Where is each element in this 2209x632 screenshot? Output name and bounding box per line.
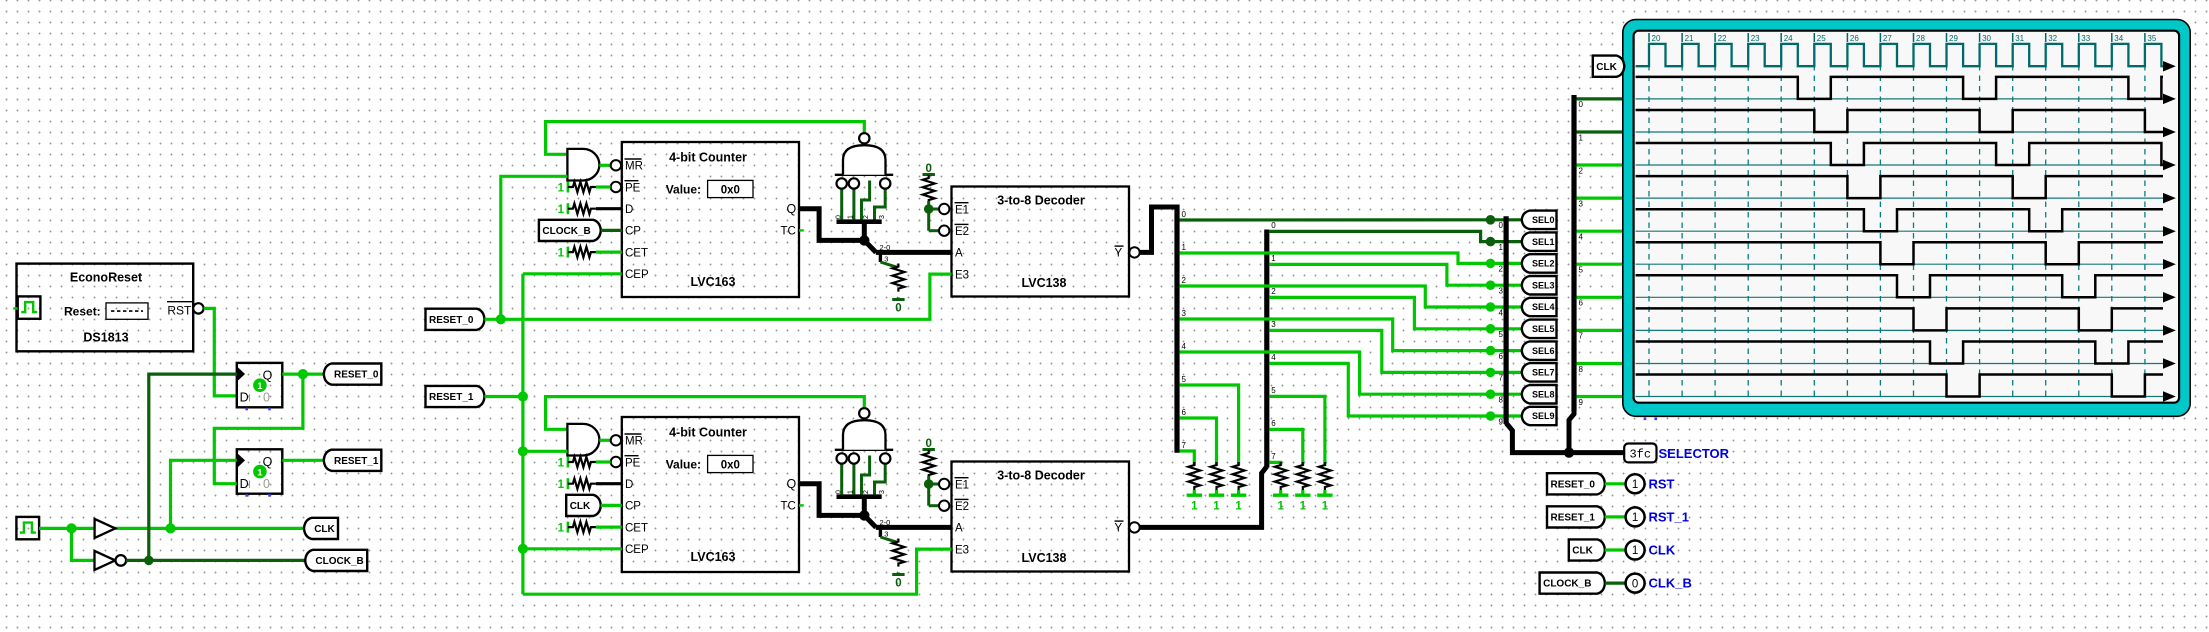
svg-text:RESET_0: RESET_0: [429, 315, 474, 326]
svg-text:RESET_1: RESET_1: [1551, 513, 1596, 524]
svg-text:1: 1: [1632, 479, 1638, 491]
svg-text:CET: CET: [625, 247, 648, 259]
svg-text:3: 3: [879, 490, 886, 494]
svg-text:4: 4: [1499, 308, 1504, 317]
svg-text:SELECTOR: SELECTOR: [1659, 446, 1730, 461]
wire splitter bit1 to NANDB input bubble: [852, 464, 855, 495]
splitter SB2 bits 2-0 / 3: [864, 515, 876, 527]
svg-text:CLOCK_B: CLOCK_B: [315, 556, 363, 567]
svg-text:6: 6: [1182, 408, 1187, 417]
svg-text:I: I: [248, 393, 251, 405]
wire FF2 Q output to tunnel RESET_1: [282, 459, 324, 462]
scope vertical grid dashed lines: [1648, 44, 1650, 401]
wire NANDA feedback to ANDA gate input: [546, 122, 865, 155]
svg-text:RST: RST: [1649, 476, 1675, 491]
svg-text:3-to-8 Decoder: 3-to-8 Decoder: [997, 469, 1085, 483]
svg-text:CP: CP: [625, 226, 641, 238]
scope tick marks and numbers 20-35: [1648, 33, 1650, 42]
inverted output pin RST of U1: [193, 303, 203, 313]
svg-text:RESET_0: RESET_0: [334, 370, 379, 381]
4-bit counter U4 LVC163: [622, 417, 799, 572]
AND gate GB: [567, 424, 599, 456]
svg-text:RESET_0: RESET_0: [1551, 479, 1596, 490]
svg-text:E3: E3: [955, 269, 969, 281]
wire RESET_0 to probe: [1605, 482, 1626, 485]
wire to E2 bubble: [929, 504, 939, 507]
svg-text:22: 22: [1718, 34, 1727, 43]
wire CLOCK_B to probe: [1605, 581, 1626, 584]
wire D1.7 to pull-up resistor: [1180, 451, 1195, 466]
tunnel CLOCK_B to output probe CLK_B: [1540, 573, 1605, 594]
tunnel RESET_1 (left): [324, 450, 382, 471]
svg-text:1: 1: [1277, 501, 1284, 513]
junction on FF1 Q node: [298, 369, 308, 379]
svg-text:1: 1: [1213, 501, 1220, 513]
svg-text:34: 34: [2114, 34, 2123, 43]
splitter SB1 bus to 4 bits: [862, 496, 867, 515]
svg-text:SEL4: SEL4: [1532, 302, 1555, 312]
pull-up resistor on D pin (value 1): [567, 203, 570, 214]
scope row 6 arrow: [2164, 293, 2175, 302]
svg-text:0: 0: [1499, 221, 1504, 230]
svg-text:30: 30: [1982, 34, 1991, 43]
svg-text:Value:: Value:: [666, 457, 701, 471]
svg-text:Q: Q: [787, 477, 797, 491]
svg-text:SEL6: SEL6: [1532, 346, 1555, 356]
svg-text:4: 4: [1579, 233, 1584, 242]
svg-text:9: 9: [1499, 417, 1504, 426]
svg-text:CLOCK_B: CLOCK_B: [542, 226, 590, 237]
svg-text:0x0: 0x0: [721, 460, 740, 472]
wire D2.5 to pull-up resistor: [1269, 396, 1325, 465]
svg-text:E3: E3: [955, 544, 969, 556]
output probe RST (value 1): [1626, 474, 1645, 493]
tunnel CLK to CP pin: [566, 495, 601, 516]
svg-text:9: 9: [1579, 398, 1584, 407]
svg-text:A: A: [955, 523, 963, 535]
svg-text:7: 7: [1499, 374, 1504, 383]
svg-text:E2: E2: [955, 226, 969, 238]
splitter SA2 bits 2-0 / 3: [864, 240, 876, 252]
scope row 8 arrow: [2164, 359, 2175, 368]
svg-text:CLK: CLK: [1572, 546, 1593, 557]
wire RST to D input of flip-flop FF1: [204, 308, 237, 396]
svg-text:5: 5: [1271, 386, 1276, 395]
pull-up resistor on CET pin (value 1): [567, 522, 570, 533]
svg-text:5: 5: [1499, 330, 1504, 339]
svg-text:PE: PE: [625, 182, 641, 194]
svg-text:Y: Y: [1115, 523, 1123, 535]
junction RESET_1 to CEP-B: [518, 544, 528, 554]
wire D1.6 to pull-up resistor: [1180, 418, 1217, 466]
svg-text:RESET_1: RESET_1: [429, 392, 474, 403]
wire D2.3 to SEL7 node: [1269, 330, 1490, 372]
wire clock node down to inverter input: [72, 528, 95, 560]
pull-down resistor on bit 3 (value 0): [892, 539, 904, 567]
svg-text:SEL2: SEL2: [1532, 259, 1555, 269]
svg-text:24: 24: [1784, 34, 1793, 43]
tunnel RESET_1 (feeds ANDB and E3): [426, 386, 485, 407]
wire RESET_1 to probe: [1605, 515, 1626, 518]
wire D1.2 to SEL4 node: [1180, 286, 1491, 307]
bus Q output of counter to splitter: [799, 484, 864, 516]
bus SELECTOR node up to splitter bar M2: [1569, 410, 1574, 453]
pull-up resistor on CET pin (value 1): [567, 247, 570, 258]
svg-text:LVC138: LVC138: [1022, 276, 1067, 290]
svg-text:20: 20: [1652, 34, 1661, 43]
wire ANDB output to counter MR pin: [599, 439, 610, 442]
svg-text:DS1813: DS1813: [83, 330, 128, 344]
svg-text:3: 3: [1182, 309, 1187, 318]
scope signal waveforms SEL0-SEL9: [1636, 77, 2163, 99]
junction on Q bus: [859, 510, 869, 520]
wire CLOCK_B from inverter to tunnel: [126, 559, 305, 562]
pull-up resistor on PE pin (value 1): [567, 182, 570, 193]
svg-text:CLK: CLK: [1649, 543, 1676, 558]
svg-text:26: 26: [1850, 34, 1859, 43]
tunnel CLOCK_B (left): [305, 550, 367, 571]
svg-text:2: 2: [863, 215, 870, 219]
tunnel CLK to scope clock input: [1593, 56, 1625, 77]
wire to E1 bubble: [929, 208, 939, 211]
svg-text:Reset:: Reset:: [64, 304, 101, 318]
wire D2.1 to SEL3 node: [1269, 264, 1490, 285]
AND gate GA: [567, 149, 599, 181]
svg-text:RESET_1: RESET_1: [334, 456, 379, 467]
svg-text:1: 1: [1191, 501, 1198, 513]
wire RESET_1 to decoder-B E3: [523, 549, 952, 594]
svg-text:2: 2: [1182, 276, 1187, 285]
vertical RESET_1 node wire (CEP-A / AND-B / CEP-B / E3-B): [521, 274, 524, 594]
svg-text:31: 31: [2015, 34, 2024, 43]
wire D1.0 to SEL0 node: [1180, 218, 1491, 221]
svg-text:Q: Q: [787, 202, 797, 216]
svg-text:CP: CP: [625, 501, 641, 513]
output probe CLK_B (value 0): [1626, 574, 1645, 593]
output probe CLK (value 1): [1626, 541, 1645, 560]
bus Q output of counter to splitter: [799, 209, 864, 241]
svg-text:1: 1: [558, 479, 565, 491]
svg-text:1: 1: [257, 468, 263, 479]
NAND gate NA (4-input, output up): [835, 174, 893, 176]
scope row 7 arrow: [2164, 326, 2175, 335]
scope row 1 arrow: [2164, 128, 2175, 137]
wire FF1 Q output to tunnel RESET_0: [282, 373, 324, 376]
svg-text:I: I: [248, 479, 251, 491]
pull-up resistor on D pin (value 1): [567, 478, 570, 489]
svg-text:27: 27: [1883, 34, 1892, 43]
svg-text:E1: E1: [955, 204, 969, 216]
bus bits 2-0 to decoder A input: [876, 525, 952, 530]
splitter bar M2 (scope inputs 0-9): [1571, 95, 1576, 411]
svg-text:CEP: CEP: [625, 544, 649, 556]
output probe RST_1 (value 1): [1626, 507, 1645, 526]
tunnel RESET_1 to output probe RST_1: [1547, 506, 1605, 527]
svg-text:1: 1: [558, 458, 565, 470]
junction CLK node to FF2 clock: [165, 523, 175, 533]
svg-text:4-bit Counter: 4-bit Counter: [669, 426, 747, 440]
D flip-flop FF1: [237, 363, 282, 407]
svg-text:SEL5: SEL5: [1532, 324, 1555, 334]
svg-text:32: 32: [2048, 34, 2057, 43]
svg-text:RST: RST: [167, 304, 192, 318]
wire D1.4 to SEL8 node: [1180, 352, 1491, 394]
scope row 2 arrow: [2164, 161, 2175, 170]
wire D2.0 to SEL1 node: [1269, 231, 1490, 241]
wire CLK node up to FF2 clock input: [171, 460, 237, 528]
bus bits 2-0 to decoder A input: [876, 250, 952, 255]
wire D1.1 to SEL2 node: [1180, 253, 1491, 263]
clock source CLK1: [16, 517, 39, 539]
svg-text:1: 1: [257, 381, 263, 392]
wire D2.6 to pull-up resistor: [1269, 429, 1303, 465]
svg-text:1: 1: [1322, 501, 1329, 513]
svg-text:0: 0: [263, 477, 270, 491]
svg-text:1: 1: [1235, 501, 1242, 513]
wire D2.7 to pull-up resistor: [1269, 462, 1280, 465]
wire CEP pin from reset-node vertical: [523, 272, 622, 275]
bus decoder-A Y output to splitter bar D1: [1140, 207, 1177, 252]
NAND gate NB (4-input, output up): [835, 449, 893, 451]
wire D2.2 to SEL5 node: [1269, 297, 1490, 328]
tunnel CLK (left): [304, 518, 338, 539]
D flip-flop FF2: [237, 449, 282, 493]
svg-text:3: 3: [1499, 287, 1504, 296]
svg-text:0x0: 0x0: [721, 185, 740, 197]
svg-text:EconoReset: EconoReset: [70, 271, 143, 285]
svg-text:LVC138: LVC138: [1022, 551, 1067, 565]
junction on Q bus: [859, 235, 869, 245]
wire RESET_0 up to AND gate input: [501, 176, 568, 319]
svg-text:1: 1: [558, 248, 565, 260]
svg-text:LVC163: LVC163: [691, 550, 736, 564]
svg-text:SEL7: SEL7: [1532, 368, 1555, 378]
wires splitter M2 to scope rows: [1577, 97, 1625, 100]
wire splitter bit1 to NANDA input bubble: [852, 189, 855, 220]
tunnel RESET_0 to output probe RST: [1547, 473, 1605, 494]
svg-text:SEL9: SEL9: [1532, 411, 1555, 421]
svg-text:21: 21: [1685, 34, 1694, 43]
svg-text:33: 33: [2081, 34, 2090, 43]
scope row 4 arrow: [2164, 227, 2175, 236]
scope row 0 arrow: [2164, 94, 2175, 103]
svg-text:1: 1: [558, 523, 565, 535]
wire D1.3 to SEL6 node: [1180, 319, 1491, 351]
svg-text:TC: TC: [781, 501, 796, 513]
wire FF1 Q to FF2 D input: [214, 374, 303, 484]
svg-text:CLOCK_B: CLOCK_B: [1543, 579, 1591, 590]
svg-text:SEL1: SEL1: [1532, 237, 1555, 247]
scope CLK trace: [1636, 44, 2163, 66]
junction on E1/E2 node: [924, 479, 934, 489]
pull-up resistor on PE pin (value 1): [567, 457, 570, 468]
wire bit 3 to pull-down resistor: [879, 252, 882, 262]
svg-text:1: 1: [558, 183, 565, 195]
power-on-reset U1 EconoReset DS1813: [17, 264, 194, 352]
svg-text:0: 0: [1632, 578, 1638, 590]
wire splitter bit0 to NANDA input bubble: [840, 189, 843, 220]
3-to-8 decoder U5 LVC138: [952, 462, 1130, 572]
svg-text:SEL0: SEL0: [1532, 215, 1555, 225]
svg-text:5: 5: [1579, 266, 1584, 275]
svg-text:CLK: CLK: [570, 501, 591, 512]
svg-text:0: 0: [1579, 100, 1584, 109]
scope row baselines: [1636, 98, 2163, 100]
svg-text:2: 2: [1499, 265, 1504, 274]
svg-text:7: 7: [1579, 332, 1584, 341]
svg-text:0: 0: [1271, 221, 1276, 230]
svg-text:23: 23: [1751, 34, 1760, 43]
tunnel RESET_0 (feeds ANDA and E3): [426, 309, 485, 330]
svg-text:TC: TC: [781, 226, 796, 238]
svg-text:CET: CET: [625, 522, 648, 534]
wire to E2 bubble: [929, 229, 939, 232]
svg-text:6: 6: [1499, 352, 1504, 361]
tunnel CLOCK_B to CP pin: [539, 220, 601, 241]
svg-text:1: 1: [1632, 512, 1638, 524]
svg-text:8: 8: [1579, 365, 1584, 374]
wire CLK to probe: [1605, 548, 1626, 551]
svg-text:D: D: [625, 479, 633, 491]
svg-text:2: 2: [863, 490, 870, 494]
svg-text:1: 1: [1579, 133, 1584, 142]
svg-text:0: 0: [1182, 210, 1187, 219]
svg-text:28: 28: [1916, 34, 1925, 43]
wire splitter bit3 to NANDB input bubble: [875, 464, 886, 495]
svg-text:3: 3: [1271, 320, 1276, 329]
svg-text:MR: MR: [625, 161, 643, 173]
wire splitter bit0 to NANDB input bubble: [840, 464, 843, 495]
wire bit 3 to pull-down resistor: [879, 527, 882, 537]
pull-down resistor on bit 3 (value 0): [892, 264, 904, 292]
svg-text:LVC163: LVC163: [691, 275, 736, 289]
junction CLOCK_B node: [144, 556, 154, 566]
tunnel RESET_0 (left): [324, 364, 382, 385]
wire RESET_0 to decoder E3: [501, 274, 952, 319]
svg-text:1: 1: [558, 204, 565, 216]
svg-text:5: 5: [1182, 375, 1187, 384]
svg-text:7: 7: [1182, 441, 1187, 450]
svg-text:CEP: CEP: [625, 269, 649, 281]
svg-text:A: A: [955, 248, 963, 260]
svg-text:1: 1: [1632, 545, 1638, 557]
svg-text:E1: E1: [955, 479, 969, 491]
bus decoder-B Y output to splitter bar D2: [1140, 467, 1267, 528]
wire clock source to buffer and CLK tunnel: [39, 527, 304, 530]
svg-text:E2: E2: [955, 501, 969, 513]
svg-text:SEL8: SEL8: [1532, 389, 1555, 399]
svg-text:4-bit Counter: 4-bit Counter: [669, 151, 747, 165]
svg-text:6: 6: [1271, 419, 1276, 428]
svg-text:6: 6: [1579, 299, 1584, 308]
svg-text:3: 3: [879, 215, 886, 219]
junction SELECTOR bus: [1564, 447, 1574, 457]
tunnel CLK to output probe CLK: [1569, 539, 1605, 560]
bus merger M1 to SELECTOR node: [1506, 423, 1624, 453]
svg-text:0: 0: [895, 303, 901, 315]
svg-text:2: 2: [1271, 287, 1276, 296]
inverter N1: [95, 551, 116, 570]
wire NANDB feedback to ANDB gate input: [546, 397, 865, 430]
junction clock source node: [66, 523, 76, 533]
svg-text:29: 29: [1949, 34, 1958, 43]
junction RESET_0 node: [496, 314, 506, 324]
scope CLK arrow: [2164, 62, 2175, 71]
merger bar M1 (SEL0-9 to SELECTOR bus): [1503, 216, 1508, 424]
wire to E1 bubble: [929, 483, 939, 486]
pull-up resistors group A (values 1): [1188, 462, 1200, 490]
scope row 9 arrow: [2164, 392, 2175, 401]
svg-text:Y: Y: [1115, 248, 1123, 260]
3-to-8 decoder U3 LVC138: [952, 187, 1130, 297]
svg-text:35: 35: [2147, 34, 2156, 43]
junction RESET_1 node at tunnel: [518, 391, 528, 401]
splitter SA1 bus to 4 bits: [862, 221, 867, 240]
pull-up resistors group B (values 1): [1275, 462, 1287, 490]
svg-text:1: 1: [1499, 243, 1504, 252]
svg-text:7: 7: [1271, 452, 1276, 461]
scope row 5 arrow: [2164, 260, 2175, 269]
svg-text:3-to-8 Decoder: 3-to-8 Decoder: [997, 194, 1085, 208]
svg-text:4: 4: [1182, 342, 1187, 351]
svg-text:Value:: Value:: [666, 182, 701, 196]
svg-text:D: D: [625, 204, 633, 216]
svg-text:CLK: CLK: [314, 524, 335, 535]
4-bit counter U2 LVC163: [622, 142, 799, 297]
junction on E1/E2 node: [924, 204, 934, 214]
svg-text:MR: MR: [625, 436, 643, 448]
wire D2.4 to SEL9 node: [1269, 363, 1490, 416]
tunnels SEL0-SEL9: [1522, 211, 1557, 230]
wire splitter bit2 to NANDB input: [862, 456, 870, 495]
svg-text:SEL3: SEL3: [1532, 280, 1555, 290]
scope row 3 arrow: [2164, 194, 2175, 203]
junction dots on SEL nodes: [1486, 215, 1496, 225]
svg-text:PE: PE: [625, 457, 641, 469]
junction RESET_1 to AND-B input: [518, 446, 528, 456]
svg-text:3fc: 3fc: [1629, 447, 1651, 461]
wire CLOCK_B node up to FF1 clock input: [149, 374, 237, 560]
svg-text:25: 25: [1817, 34, 1826, 43]
svg-text:2: 2: [1579, 166, 1584, 175]
unconnected pin marks under scope: [1644, 418, 1647, 421]
svg-text:3: 3: [1579, 199, 1584, 208]
splitter bar D2 (decoder B outputs 0-7): [1264, 230, 1269, 468]
svg-text:CLK_B: CLK_B: [1649, 576, 1692, 591]
svg-text:1: 1: [1300, 501, 1307, 513]
svg-text:1: 1: [1182, 243, 1187, 252]
svg-text:0: 0: [263, 391, 270, 405]
svg-text:8: 8: [1499, 396, 1504, 405]
svg-text:0: 0: [895, 578, 901, 590]
buffer B1: [95, 519, 116, 538]
splitter bar D1 (decoder A outputs 0-7): [1174, 205, 1179, 453]
wire ANDA output to counter MR pin: [599, 164, 610, 167]
wires SEL nodes through merger bar to SEL tunnels: [1491, 218, 1522, 221]
svg-text:1: 1: [1271, 254, 1276, 263]
SELECTOR value box 3fc: [1624, 444, 1656, 463]
svg-text:RST_1: RST_1: [1649, 510, 1689, 525]
wire splitter bit2 to NANDA input: [862, 181, 870, 220]
svg-text:CLK: CLK: [1596, 62, 1617, 73]
svg-text:4: 4: [1271, 353, 1276, 362]
wire CEP pin from reset-node vertical: [523, 547, 622, 550]
wire splitter bit3 to NANDA input bubble: [875, 189, 886, 220]
timing diagram panel (oscilloscope): [1623, 20, 2190, 417]
wire D1.5 to pull-up resistor: [1180, 385, 1239, 466]
